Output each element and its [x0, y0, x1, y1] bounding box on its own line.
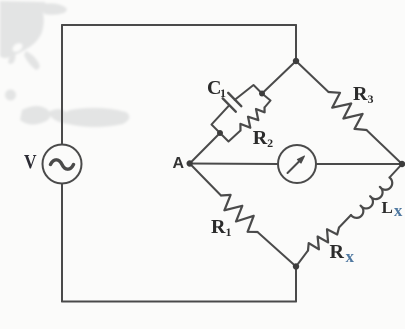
resistor R2 leads	[220, 94, 271, 142]
capacitor C1 lead upper	[235, 85, 262, 100]
label V	[24, 151, 37, 174]
wire A to R1	[190, 164, 221, 196]
wire Rx to bottom node	[296, 251, 308, 267]
galvanometer wire to right node	[316, 163, 402, 165]
wire Lx to Rx	[339, 215, 351, 228]
resistor R3 zigzag	[329, 92, 367, 130]
junction dot J2	[259, 91, 265, 97]
wire right drop to top node	[295, 25, 297, 61]
resistor R2 zigzag	[240, 108, 264, 131]
wire left rail lower	[61, 184, 63, 302]
label R2	[253, 127, 273, 151]
galvanometer wire from A	[190, 163, 278, 166]
resistor R1 zigzag	[221, 195, 258, 232]
wire J2 to top node	[262, 61, 296, 94]
label R1	[211, 216, 231, 240]
galvanometer needle arrowhead	[297, 156, 304, 163]
node A dot	[187, 160, 193, 166]
label Rx	[330, 241, 354, 267]
wire R1 to bottom node	[258, 232, 297, 267]
wire R3 to right node	[367, 130, 403, 164]
galvanometer needle	[288, 160, 301, 173]
wire right node to Lx	[390, 164, 403, 178]
wire bottom rail	[62, 301, 296, 303]
wire A to J1	[190, 133, 220, 164]
inductor Lx coil	[351, 178, 392, 218]
AC source V circle	[43, 145, 82, 184]
AC source sine symbol	[51, 160, 74, 169]
capacitor C1 lead lower	[212, 105, 230, 133]
wire top rail	[62, 24, 296, 26]
capacitor C1 plates	[223, 93, 242, 112]
node bottom dot	[293, 263, 299, 269]
wire left rail upper	[61, 25, 63, 145]
label R3	[353, 83, 373, 107]
label Lx	[382, 198, 403, 221]
smudge watermark top-left	[0, 1, 129, 127]
node top junction dot	[293, 58, 299, 64]
junction dot J1	[217, 130, 223, 136]
wire top node to R3	[296, 61, 329, 92]
galvanometer circle	[278, 145, 316, 183]
wire bottom node drop	[295, 267, 297, 302]
smudge notch	[11, 41, 24, 54]
node right dot	[399, 161, 405, 167]
label C1	[207, 77, 226, 101]
label A	[173, 155, 185, 173]
resistor Rx zigzag	[308, 228, 339, 251]
